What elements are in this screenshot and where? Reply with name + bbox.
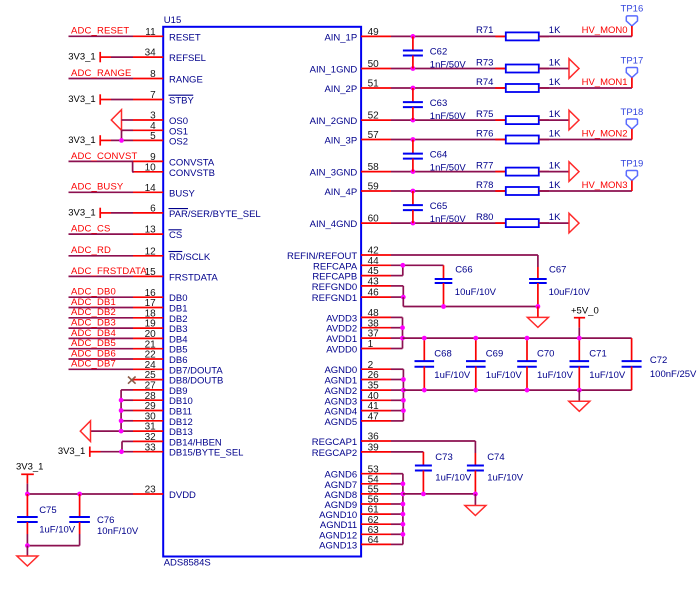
pin 45 REFCAPB (right) [312, 266, 391, 282]
node junction AGND bus [401, 377, 406, 382]
pin 14 BUSY (left) [133, 183, 196, 199]
wire AVDD rail [403, 337, 632, 339]
svg-text:R75: R75 [476, 109, 493, 120]
svg-text:7: 7 [150, 90, 156, 101]
pin 9 CONVSTA (left) [133, 152, 215, 168]
wire to test point [539, 190, 632, 192]
pin 60 AIN_4GND (right) [310, 214, 391, 230]
wire C75/C76 ground run [27, 534, 79, 546]
pin 22 DB6 (left) [133, 350, 187, 366]
node junction AGND6-13 bus [401, 532, 406, 537]
svg-text:ADC_RANGE: ADC_RANGE [71, 68, 131, 79]
svg-text:ADC_DB7: ADC_DB7 [71, 359, 116, 370]
power port +5V_0 [571, 306, 599, 339]
node junction C68 top [422, 336, 427, 341]
pin 18 DB2 (left) [133, 308, 187, 324]
node junction DB15 [119, 449, 124, 454]
svg-text:ADS8584S: ADS8584S [164, 558, 211, 569]
wire AVDD stub [391, 327, 403, 329]
svg-text:23: 23 [145, 485, 157, 496]
wire AVDD stub [391, 337, 403, 339]
pin 49 AIN_1P (right) [324, 27, 391, 43]
capacitor C62 [403, 36, 466, 70]
wire DB stub y=389.9 [121, 389, 133, 391]
wire to arrow [539, 68, 569, 70]
node junction C69 top [473, 336, 478, 341]
svg-text:34: 34 [145, 48, 157, 59]
svg-text:1K: 1K [549, 212, 561, 223]
ground (DVDD decoupling) [17, 556, 38, 566]
node junction REFCAP [400, 263, 405, 268]
svg-text:50: 50 [368, 59, 380, 70]
node junction DB bus [119, 418, 124, 423]
pin 28 DB10 (left) [133, 391, 193, 407]
node junction cap (R71 row) [411, 34, 416, 39]
svg-text:49: 49 [368, 27, 380, 38]
node junction REFGND [401, 295, 406, 300]
svg-text:R78: R78 [476, 180, 493, 191]
wire net ADC_BUSY [69, 182, 134, 193]
node junction AGND6-13 bus [401, 492, 406, 497]
svg-text:AIN_3GND: AIN_3GND [310, 168, 358, 179]
wire OS vertical [121, 130, 123, 140]
pin 7 STBY (left) [133, 90, 194, 106]
pin 58 AIN_3GND (right) [310, 162, 391, 178]
svg-text:26: 26 [368, 370, 380, 381]
svg-text:AGND1: AGND1 [324, 376, 357, 387]
svg-text:C62: C62 [430, 47, 447, 58]
svg-text:AVDD2: AVDD2 [326, 324, 357, 335]
wire AGND run [403, 389, 631, 391]
wire net ADC_RANGE [69, 68, 134, 79]
svg-text:C70: C70 [537, 348, 554, 359]
wire AGND stub [391, 533, 403, 535]
wire net ADC_DB5 [69, 338, 134, 349]
test point TP18 [621, 107, 644, 140]
svg-text:RD/SCLK: RD/SCLK [169, 252, 211, 263]
test point TP16 [621, 4, 644, 37]
wire net ADC_RD [69, 245, 134, 256]
node no-connect X on DB8/DOUTB [128, 377, 136, 384]
capacitor C72 [622, 338, 697, 390]
node junction C69 bottom [473, 388, 478, 393]
node junction ground [25, 543, 30, 548]
pin 32 DB14/HBEN (left) [133, 432, 222, 448]
pin 34 REFSEL (left) [133, 48, 206, 64]
node junction cap (R76 row) [411, 137, 416, 142]
pin 33 DB15/BYTE_SEL (left) [133, 442, 243, 458]
wire REGCAP1 to C74 [391, 441, 475, 466]
pin 19 DB3 (left) [133, 319, 187, 335]
node junction cap (R75 row) [411, 118, 416, 123]
test point TP17 [621, 55, 644, 88]
svg-text:1nF/50V: 1nF/50V [430, 163, 467, 174]
svg-text:11: 11 [145, 27, 156, 38]
svg-text:43: 43 [368, 277, 380, 288]
capacitor C64 [403, 140, 466, 174]
wire REFGND1 [391, 296, 403, 298]
svg-text:12: 12 [145, 246, 157, 257]
node junction C71 bottom [577, 388, 582, 393]
svg-text:58: 58 [368, 162, 380, 173]
node junction OS2/3V3_1 [119, 138, 124, 143]
svg-text:HV_MON1: HV_MON1 [582, 77, 628, 88]
resistor R74 [476, 77, 549, 92]
svg-text:TP18: TP18 [621, 107, 644, 118]
svg-text:38: 38 [368, 318, 380, 329]
svg-text:AIN_3P: AIN_3P [324, 136, 357, 147]
svg-text:PAR/SER/BYTE_SEL: PAR/SER/BYTE_SEL [169, 209, 261, 220]
svg-text:1uF/10V: 1uF/10V [486, 370, 523, 381]
capacitor C76 [69, 494, 139, 537]
svg-text:HV_MON3: HV_MON3 [582, 180, 628, 191]
wire DB stub y=410.5 [121, 410, 133, 412]
node junction AGND bus [401, 408, 406, 413]
svg-text:33: 33 [145, 442, 157, 453]
svg-text:10uF/10V: 10uF/10V [549, 287, 591, 298]
svg-text:1uF/10V: 1uF/10V [589, 370, 626, 381]
ground (REF) [527, 317, 548, 327]
svg-text:C65: C65 [430, 201, 447, 212]
pin 51 AIN_2P (right) [324, 79, 391, 95]
pin 53 AGND6 (right) [324, 464, 391, 480]
wire REFCAPA to C66 [391, 265, 444, 279]
node junction DB bus [119, 408, 124, 413]
wire to REGCAP ground [474, 494, 476, 506]
svg-text:51: 51 [368, 79, 380, 90]
wire to ground [26, 546, 28, 556]
node junction C68 bottom [422, 388, 427, 393]
wire AGND stub [391, 483, 403, 485]
svg-text:10uF/10V: 10uF/10V [455, 287, 497, 298]
wire AIN row R77 [391, 171, 506, 173]
wire AGND stub [391, 473, 403, 475]
pin 48 AVDD3 (right) [326, 308, 391, 324]
svg-text:8: 8 [150, 69, 156, 80]
resistor R76 [476, 128, 549, 143]
pin 37 AVDD1 (right) [326, 329, 391, 345]
pin 21 DB5 (left) [133, 339, 187, 355]
svg-text:10: 10 [145, 162, 157, 173]
pin 41 AGND4 (right) [324, 401, 391, 417]
svg-text:57: 57 [368, 130, 380, 141]
wire REFIN/REFOUT to C67 [391, 255, 538, 279]
svg-text:36: 36 [368, 432, 380, 443]
pin 25 DB8/DOUTB (left) [133, 370, 223, 386]
svg-text:RANGE: RANGE [169, 75, 203, 86]
wire AGND stub [391, 379, 403, 381]
pin 12 RD/SCLK (left) [133, 246, 211, 262]
wire AGND6-13 bus vertical [402, 474, 404, 545]
ground (REGCAP) [465, 506, 486, 516]
node junction C70 top [525, 336, 530, 341]
pin 57 AIN_3P (right) [324, 130, 391, 146]
svg-text:10nF/10V: 10nF/10V [97, 526, 139, 537]
svg-text:R73: R73 [476, 57, 493, 68]
capacitor C71 [570, 338, 626, 390]
power port 3V3_1 [68, 52, 133, 63]
svg-text:3V3_1: 3V3_1 [68, 207, 95, 218]
svg-text:+5V_0: +5V_0 [571, 306, 599, 317]
power port 3V3_1 (DVDD) [16, 461, 43, 483]
wire REFGND0 down to REFGND1 [391, 286, 403, 297]
pin 47 AGND5 (right) [324, 412, 391, 428]
svg-text:STBY: STBY [169, 96, 194, 107]
wire AGND stub [391, 543, 403, 545]
svg-text:3V3_1: 3V3_1 [68, 52, 95, 63]
wire to arrow [539, 222, 569, 224]
wire net ADC_DB3 [69, 318, 134, 329]
pin 56 AGND9 (right) [324, 495, 391, 511]
svg-text:1nF/50V: 1nF/50V [430, 214, 467, 225]
svg-text:C63: C63 [430, 98, 447, 109]
wire to REF ground [537, 307, 539, 318]
wire DB9-DB13 bus vertical [120, 390, 122, 431]
svg-text:REGCAP1: REGCAP1 [312, 437, 357, 448]
pin 15 FRSTDATA (left) [133, 267, 218, 283]
svg-text:C67: C67 [549, 265, 566, 276]
svg-text:C75: C75 [39, 505, 56, 516]
svg-text:1K: 1K [549, 25, 561, 36]
wire ADC_CONVST branch to CONVSTB pin 10 [132, 161, 134, 171]
node junction AGND6-13 bus [401, 522, 406, 527]
node junction AGND6-13 bus [401, 502, 406, 507]
node harness arrow [569, 110, 579, 130]
node junction C70 bottom [525, 388, 530, 393]
svg-text:6: 6 [150, 204, 156, 215]
svg-text:1K: 1K [549, 77, 561, 88]
svg-text:1nF/50V: 1nF/50V [430, 59, 467, 70]
node junction C75 [25, 492, 30, 497]
pin 42 REFIN/REFOUT (right) [287, 246, 391, 262]
capacitor C68 [415, 338, 471, 390]
svg-text:3V3_1: 3V3_1 [68, 135, 95, 146]
wire to test point [539, 139, 632, 141]
svg-text:AIN_1P: AIN_1P [324, 32, 357, 43]
pin 46 REFGND1 (right) [312, 288, 391, 304]
wire to test point [539, 87, 632, 89]
pin 1 AVDD0 (right) [326, 339, 391, 355]
node harness arrow [569, 59, 579, 79]
svg-text:C66: C66 [455, 265, 472, 276]
node junction C67 gnd [536, 304, 541, 309]
pin 39 REGCAP2 (right) [312, 443, 391, 459]
pin 31 DB13 (left) [133, 422, 193, 438]
pin 40 AGND3 (right) [324, 391, 391, 407]
resistor R80 [476, 212, 549, 227]
svg-text:R71: R71 [476, 25, 493, 36]
node junction cap (R77 row) [411, 169, 416, 174]
svg-text:AIN_4P: AIN_4P [324, 187, 357, 198]
pin 43 REFGND0 (right) [312, 277, 391, 293]
pin 63 AGND12 (right) [319, 525, 391, 541]
node junction cap (R78 row) [411, 189, 416, 194]
pin 35 AGND2 (right) [324, 381, 391, 397]
wire AIN row R74 [391, 87, 506, 89]
wire OS0 [122, 119, 134, 121]
svg-text:ADC_RD: ADC_RD [71, 245, 111, 256]
node junction C66 gnd [441, 304, 446, 309]
wire AGND stub [391, 503, 403, 505]
wire net ADC_CONVST [69, 151, 138, 162]
svg-text:C68: C68 [434, 348, 451, 359]
node junction C74 gnd [473, 492, 478, 497]
wire AGND stub [391, 368, 403, 370]
svg-text:1uF/10V: 1uF/10V [435, 472, 472, 483]
wire AIN row R71 [391, 35, 506, 37]
pin 11 RESET (left) [133, 27, 201, 43]
wire AGND stub [391, 399, 403, 401]
svg-text:ADC_RESET: ADC_RESET [71, 26, 129, 37]
node junction AGND bus [401, 388, 406, 393]
wire AGND stub [391, 513, 403, 515]
pin 29 DB11 (left) [133, 401, 192, 417]
wire to arrow [539, 171, 569, 173]
svg-text:AIN_1GND: AIN_1GND [310, 65, 358, 76]
svg-text:R76: R76 [476, 128, 493, 139]
pin 6 PAR/SER/BYTE_SEL (left) [133, 204, 261, 220]
svg-text:C76: C76 [97, 515, 114, 526]
resistor R77 [476, 160, 549, 175]
pin 17 DB1 (left) [133, 298, 187, 314]
wire AGND stub [391, 420, 403, 422]
pin 62 AGND11 (right) [320, 515, 391, 531]
pin 8 RANGE (left) [133, 69, 203, 85]
wire net ADC_DB4 [69, 328, 134, 339]
capacitor C70 [517, 338, 573, 390]
svg-text:BUSY: BUSY [169, 188, 196, 199]
svg-text:REGCAP2: REGCAP2 [312, 448, 357, 459]
power port 3V3_1 [68, 207, 133, 218]
wire AGND stub [391, 523, 403, 525]
pin 3 OS0 (left) [133, 111, 188, 127]
svg-text:TP16: TP16 [621, 4, 644, 15]
svg-text:ADC_FRSTDATA: ADC_FRSTDATA [71, 266, 147, 277]
node junction AGND bus [401, 398, 406, 403]
pin 27 DB9 (left) [133, 381, 187, 397]
wire DB stub y=420.8 [121, 420, 133, 422]
svg-text:TP19: TP19 [621, 158, 644, 169]
wire net ADC_DB1 [69, 297, 134, 308]
IC U15 ADS8584S body [163, 27, 361, 557]
svg-text:1K: 1K [549, 160, 561, 171]
pin 61 AGND10 (right) [319, 505, 391, 521]
svg-text:AVDD1: AVDD1 [326, 334, 357, 345]
svg-text:100nF/25V: 100nF/25V [650, 369, 697, 380]
wire DB14/HBEN jog [122, 441, 133, 451]
svg-text:1uF/10V: 1uF/10V [434, 370, 471, 381]
pin 54 AGND7 (right) [324, 474, 391, 490]
svg-text:REFGND1: REFGND1 [312, 293, 357, 304]
svg-text:64: 64 [368, 535, 380, 546]
wire AGND bus vertical [402, 369, 404, 421]
svg-text:3V3_1: 3V3_1 [16, 461, 43, 472]
svg-text:R74: R74 [476, 77, 493, 88]
svg-text:CONVSTA: CONVSTA [169, 157, 215, 168]
svg-text:1uF/10V: 1uF/10V [537, 370, 574, 381]
wire REFCAPB up to REFCAPA [391, 265, 403, 275]
wire to AGND ground [578, 390, 580, 401]
svg-text:AVDD0: AVDD0 [326, 345, 357, 356]
svg-text:C73: C73 [435, 452, 452, 463]
pin 24 DB7/DOUTA (left) [133, 360, 223, 376]
capacitor C66 [435, 265, 497, 307]
svg-text:1nF/50V: 1nF/50V [430, 111, 467, 122]
svg-text:AIN_2P: AIN_2P [324, 84, 357, 95]
wire to test point [539, 35, 632, 37]
svg-text:R77: R77 [476, 160, 493, 171]
svg-text:9: 9 [150, 152, 156, 163]
svg-text:52: 52 [368, 111, 380, 122]
pin 52 AIN_2GND (right) [310, 111, 391, 127]
wire AIN row R73 [391, 68, 506, 70]
svg-text:1: 1 [368, 339, 374, 350]
node junction AGND6-13 bus [401, 481, 406, 486]
node harness arrow [569, 162, 579, 182]
svg-text:3V3_1: 3V3_1 [58, 446, 85, 457]
node junction cap (R80 row) [411, 221, 416, 226]
pin 55 AGND8 (right) [324, 485, 391, 501]
capacitor C65 [403, 191, 466, 225]
pin 2 AGND0 (right) [324, 360, 391, 376]
svg-text:C64: C64 [430, 150, 447, 161]
node junction cap (R73 row) [411, 66, 416, 71]
capacitor C74 [467, 452, 524, 494]
wire AVDD stub [391, 316, 403, 318]
resistor R71 [476, 25, 549, 40]
capacitor C67 [529, 265, 590, 307]
pin 5 OS2 (left) [133, 131, 188, 147]
wire net ADC_DB6 [69, 348, 134, 359]
pin 59 AIN_4P (right) [324, 182, 391, 198]
wire net ADC_RESET [69, 26, 134, 37]
svg-text:RESET: RESET [169, 32, 201, 43]
svg-text:59: 59 [368, 182, 380, 193]
pin 10 CONVSTB (left) [133, 162, 215, 178]
svg-text:HV_MON0: HV_MON0 [582, 25, 628, 36]
capacitor C75 [17, 494, 76, 536]
svg-text:R80: R80 [476, 212, 493, 223]
node junction C71 top [577, 336, 582, 341]
svg-text:39: 39 [368, 443, 380, 454]
pin 44 REFCAPA (right) [313, 256, 391, 272]
ground (AVDD decoupling) [569, 401, 590, 411]
svg-text:13: 13 [145, 225, 157, 236]
wire net ADC_FRSTDATA [69, 266, 148, 277]
svg-text:TP17: TP17 [621, 55, 644, 66]
wire AGND stub [391, 493, 403, 495]
svg-text:HV_MON2: HV_MON2 [582, 128, 628, 139]
node junction AVDD2 [400, 325, 405, 330]
svg-text:CONVSTB: CONVSTB [169, 168, 215, 179]
resistor R75 [476, 109, 549, 124]
svg-text:AIN_2GND: AIN_2GND [310, 116, 358, 127]
node OS harness arrow (pins OS0/OS1) [111, 110, 121, 131]
power port 3V3_1 [68, 135, 133, 146]
svg-text:FRSTDATA: FRSTDATA [169, 272, 218, 283]
svg-text:C71: C71 [589, 348, 606, 359]
resistor R73 [476, 57, 549, 72]
pin 38 AVDD2 (right) [326, 318, 391, 334]
wire AGND stub [391, 389, 403, 391]
wire AGND stub [391, 410, 403, 412]
power port 3V3_1 (DB15/BYTE_SEL) [58, 446, 133, 457]
pin 23 DVDD (left) [133, 485, 196, 501]
wire DB13 [91, 430, 134, 432]
svg-text:U15: U15 [164, 15, 181, 26]
svg-text:OS2: OS2 [169, 136, 188, 147]
resistor R78 [476, 180, 549, 195]
